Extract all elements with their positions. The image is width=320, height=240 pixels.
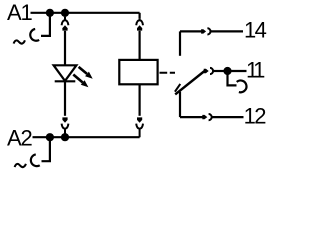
wire A1 row — [31, 12, 140, 14]
plug socket LED branch top — [62, 17, 69, 26]
plug pin 11 — [204, 69, 209, 73]
NO fixed contact line 14 — [179, 31, 181, 55]
terminal label 11 — [246, 57, 265, 82]
junction dot A2-a — [46, 133, 54, 141]
svg-text:14: 14 — [244, 17, 267, 42]
AC symbol at A2 — [15, 164, 26, 167]
wire A2 clamp stub — [42, 137, 50, 161]
contact arm movable — [175, 71, 204, 94]
wire 14 row — [180, 30, 201, 32]
wire 12 row — [180, 116, 203, 118]
cage clamp terminal 11 — [237, 80, 247, 92]
plug pin 12 — [202, 115, 207, 119]
svg-text:12: 12 — [244, 104, 267, 129]
plug socket coil bottom — [136, 124, 143, 138]
wire coil branch top corner — [139, 13, 141, 19]
wire 12 to terminal — [212, 116, 244, 118]
svg-text:A2: A2 — [7, 125, 32, 150]
plug socket LED branch bottom — [62, 124, 69, 138]
cage clamp terminal A1 — [30, 29, 39, 41]
wire 11 to terminal — [228, 70, 247, 72]
wire coil upper lead — [139, 31, 141, 60]
terminal label 12 — [244, 104, 267, 129]
wire coil lower lead — [139, 84, 141, 116]
plug pin coil bottom — [137, 117, 142, 122]
AC symbol at A1 — [14, 40, 25, 43]
wire 11 to dot — [213, 70, 227, 72]
junction dot 11 — [223, 67, 231, 75]
mechanical link dashed — [160, 72, 176, 74]
plug socket 14 — [207, 28, 210, 34]
LED D1 — [54, 65, 93, 87]
relay coil K1 — [119, 60, 157, 84]
plug pin LED branch top — [62, 25, 67, 30]
plug pin 14 — [201, 29, 206, 33]
plug pin coil top — [137, 25, 142, 30]
plug pin LED branch bottom — [62, 117, 67, 122]
wire A1 clamp stub — [41, 13, 50, 36]
svg-text:A1: A1 — [7, 0, 32, 25]
svg-text:11: 11 — [246, 57, 265, 82]
contact arm tick — [175, 84, 180, 92]
junction dot A2-b — [61, 133, 69, 141]
wire 11 clamp stub — [228, 71, 237, 85]
wire A2 row — [33, 136, 140, 138]
junction dot A1-a — [46, 9, 54, 17]
junction dot A1-b — [61, 9, 69, 17]
terminal label 14 — [244, 17, 267, 42]
wire 14 to terminal — [211, 30, 243, 32]
NC fixed contact line 12 — [179, 92, 181, 117]
terminal label A1 — [7, 0, 32, 25]
cage clamp terminal A2 — [31, 154, 40, 166]
plug socket coil top — [136, 19, 143, 26]
plug socket 12 — [209, 114, 212, 120]
terminal label A2 — [7, 125, 32, 150]
wire LED branch upper — [64, 31, 66, 65]
wire LED branch lower — [64, 81, 66, 116]
plug socket 11 — [210, 68, 213, 74]
